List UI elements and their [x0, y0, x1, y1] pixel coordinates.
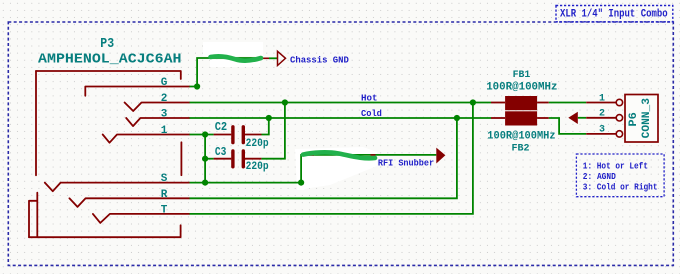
- marker squiggle on RFI wire: [303, 152, 375, 158]
- capacitor C3 right plate: [242, 151, 245, 167]
- svg-text:FB2: FB2: [512, 143, 530, 155]
- wire node column pin1/C3/S: [204, 135, 206, 183]
- wire AGND arrow to pin2: [578, 117, 586, 119]
- P3 pin S switch contact: [45, 183, 190, 192]
- P3 sleeve bracket: [29, 193, 37, 238]
- ferrite bead FB2 body: [505, 111, 537, 125]
- connector P6 pin 2 lead: [586, 117, 616, 119]
- ferrite bead FB1 right lead: [537, 102, 549, 104]
- white-out patch above chassis wire: [203, 42, 377, 190]
- capacitor C3 leads: [214, 158, 262, 160]
- junction S/RFI: [298, 180, 304, 186]
- junction Cold/C2: [266, 115, 272, 121]
- wire T to Hot: [190, 103, 473, 214]
- svg-text:RFI Snubber: RFI Snubber: [378, 158, 434, 168]
- svg-text:Chassis GND: Chassis GND: [290, 55, 349, 65]
- wire S line: [190, 182, 302, 184]
- svg-text:2: AGND: 2: AGND: [583, 172, 617, 182]
- svg-text:2: 2: [599, 109, 605, 120]
- wire R to Cold: [190, 118, 457, 198]
- wire C3 left stub: [205, 158, 214, 160]
- svg-text:100R@100MHz: 100R@100MHz: [487, 130, 555, 142]
- junction Cold/R: [454, 115, 460, 121]
- P3 pin 2 switch contact: [125, 103, 190, 112]
- P3 pin G lead: [85, 87, 189, 96]
- svg-text:C2: C2: [215, 120, 228, 134]
- RFI snubber arrow: [436, 148, 445, 164]
- svg-text:P3: P3: [100, 36, 114, 52]
- svg-text:3: 3: [161, 109, 168, 121]
- svg-text:100R@100MHz: 100R@100MHz: [486, 81, 557, 93]
- capacitor C3 left plate: [231, 151, 234, 167]
- svg-text:220p: 220p: [246, 138, 269, 150]
- ferrite bead FB2 right lead: [537, 117, 549, 119]
- P3 pin R switch contact: [69, 198, 189, 207]
- connector P6 body: [625, 95, 658, 143]
- svg-text:Hot: Hot: [361, 94, 378, 104]
- P3 pin T switch contact: [93, 214, 190, 223]
- title note box: [556, 6, 673, 22]
- junction C3 left: [202, 156, 208, 162]
- connector P6 pin 3 circle: [616, 131, 622, 137]
- connector P6 pin 1 lead: [586, 102, 616, 104]
- svg-text:FB1: FB1: [513, 69, 531, 81]
- connector P6 pin 2 circle: [616, 115, 622, 121]
- capacitor C2 leads: [214, 134, 262, 136]
- ferrite bead FB2 left lead: [491, 117, 505, 119]
- wire Cold line: [190, 117, 492, 119]
- svg-text:C3: C3: [215, 145, 227, 159]
- junction dots: [194, 83, 476, 185]
- wire Hot line: [190, 102, 492, 104]
- svg-text:XLR 1/4" Input Combo: XLR 1/4" Input Combo: [560, 9, 668, 21]
- capacitor C2 right plate: [242, 127, 245, 143]
- svg-text:1: Hot or Left: 1: Hot or Left: [583, 161, 648, 171]
- wire FB1 right: [549, 102, 587, 104]
- svg-text:S: S: [161, 173, 168, 185]
- junction G/chassis: [194, 83, 200, 89]
- P3 pin 1 switch contact: [103, 135, 190, 143]
- ferrite bead FB1 body: [505, 96, 537, 110]
- svg-text:Cold: Cold: [361, 109, 382, 119]
- svg-text:R: R: [161, 189, 168, 201]
- P3 pin 3 switch contact: [126, 118, 189, 126]
- wires (green): [190, 58, 587, 214]
- AGND hierarchical arrow on P6 pin 2: [568, 112, 578, 124]
- connector P3 body: [29, 71, 190, 237]
- svg-text:1: 1: [599, 93, 605, 104]
- capacitor C2 left plate: [231, 127, 234, 143]
- svg-text:CONN_3: CONN_3: [641, 98, 653, 139]
- svg-text:G: G: [161, 77, 168, 89]
- svg-text:T: T: [161, 204, 168, 216]
- wire C2 right to Cold: [262, 118, 269, 135]
- svg-text:2: 2: [161, 93, 168, 105]
- junction S column: [202, 180, 208, 186]
- wire FB2 right jog to pin3: [549, 118, 587, 134]
- junction Hot/C3: [282, 99, 288, 105]
- svg-text:3: 3: [599, 125, 605, 136]
- wire pin1 to C2: [190, 134, 214, 136]
- RFI wire red segment right: [371, 154, 376, 156]
- notes box: [576, 154, 664, 197]
- svg-text:1: 1: [161, 125, 168, 137]
- wire S to RFI snubber: [301, 155, 436, 183]
- svg-text:AMPHENOL_ACJC6AH: AMPHENOL_ACJC6AH: [38, 52, 182, 68]
- wire C3 right to Hot: [261, 103, 285, 159]
- svg-text:3: Cold or Right: 3: Cold or Right: [583, 183, 658, 193]
- RFI wire red segment left: [305, 154, 314, 156]
- marker squiggle on chassis wire: [211, 56, 262, 60]
- connector P6 pin 1 circle: [616, 99, 622, 105]
- hierarchical label chassis GND chevron: [278, 51, 286, 65]
- P3 tip rod: [180, 142, 182, 175]
- wire chassis label stub: [269, 57, 277, 59]
- P3 outer shell left vertical: [35, 71, 37, 175]
- connector P6 pin 3 lead: [586, 133, 616, 135]
- wire G pin to chassis junction: [190, 58, 262, 87]
- svg-text:220p: 220p: [246, 161, 269, 173]
- P3 bottom shell line: [29, 225, 181, 237]
- chassis wire red segment: [261, 57, 269, 59]
- junction pin1/C2: [202, 131, 208, 137]
- P3 outer shell top line: [36, 71, 181, 79]
- junction Hot/T: [470, 99, 476, 105]
- svg-text:P6: P6: [628, 112, 640, 126]
- ferrite bead FB1 left lead: [491, 102, 505, 104]
